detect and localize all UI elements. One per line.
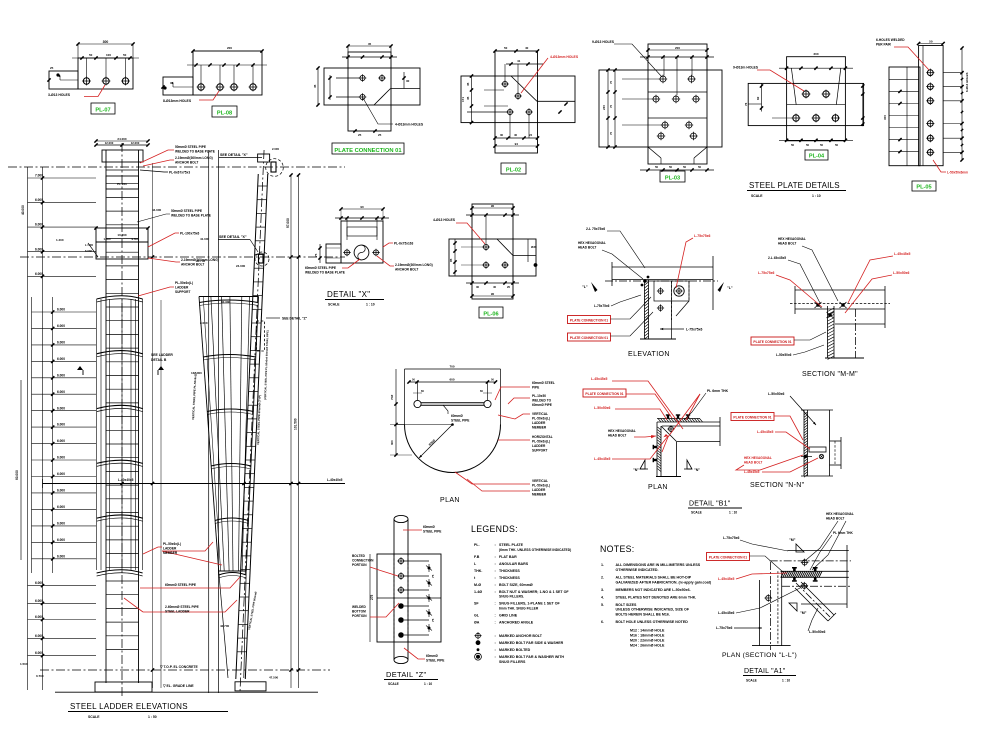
svg-text:Ø30: Ø30	[531, 245, 537, 249]
svg-text:2-19mmØ(300mm LONG): 2-19mmØ(300mm LONG)	[395, 263, 433, 267]
svg-text:DETAIL B: DETAIL B	[151, 358, 167, 362]
svg-text:6.000: 6.000	[35, 198, 43, 202]
svg-text:PL 6mm THK: PL 6mm THK	[707, 389, 729, 393]
svg-text:HEX HEXAGONAL: HEX HEXAGONAL	[826, 512, 854, 516]
svg-text:"M": "M"	[789, 538, 796, 542]
black leader pipe	[443, 405, 448, 414]
svg-text:ANCHOR BOLT: ANCHOR BOLT	[175, 161, 198, 165]
svg-text:PL-50x6x(L): PL-50x6x(L)	[532, 484, 550, 488]
label PL-06	[479, 307, 503, 318]
svg-text:6.000: 6.000	[57, 456, 65, 460]
svg-text:WELDED TO: WELDED TO	[532, 399, 552, 403]
elevation detail	[568, 227, 733, 358]
svg-text:PORTION: PORTION	[352, 563, 367, 567]
svg-text:60.300: 60.300	[221, 300, 231, 304]
svg-text::: :	[495, 620, 496, 624]
svg-text:6mm THK. SNUG FILLER: 6mm THK. SNUG FILLER	[499, 606, 539, 610]
svg-text:600: 600	[449, 378, 454, 382]
svg-text:50: 50	[655, 165, 659, 169]
svg-text:ANCHOR BOLT: ANCHOR BOLT	[181, 263, 204, 267]
svg-text:2.000: 2.000	[272, 147, 279, 151]
svg-text::: :	[495, 583, 496, 587]
svg-text:LADDER: LADDER	[532, 444, 546, 448]
svg-text:L-45x45x6: L-45x45x6	[718, 611, 735, 615]
svg-text:94: 94	[515, 142, 519, 146]
svg-text:HEX HEXAGONAL: HEX HEXAGONAL	[608, 429, 636, 433]
svg-text:ELEVATION: ELEVATION	[628, 351, 670, 358]
svg-text:9.500: 9.500	[132, 237, 139, 241]
svg-text:60mmØ: 60mmØ	[451, 414, 463, 418]
label PL-07	[91, 103, 115, 114]
ladder 1 cap plate	[102, 150, 143, 162]
leader pipe welded	[342, 259, 360, 268]
svg-text:DETAIL "Z": DETAIL "Z"	[386, 670, 426, 679]
hatched angles	[658, 419, 661, 423]
centerline bottom / T.O.P. concrete	[40, 669, 330, 671]
svg-text:L-40x40x5: L-40x40x5	[118, 478, 134, 482]
callout horizontal support	[498, 439, 530, 441]
svg-text:PL-50x6x(L): PL-50x6x(L)	[532, 417, 550, 421]
svg-text:24.000: 24.000	[117, 137, 127, 141]
svg-text:HORIZONTAL: HORIZONTAL	[532, 435, 553, 439]
svg-text:75: 75	[431, 574, 435, 578]
svg-text:1.: 1.	[601, 563, 604, 567]
plate PL-08	[161, 46, 267, 117]
svg-text:6.000: 6.000	[35, 651, 43, 655]
svg-text:50: 50	[504, 46, 508, 50]
plan rails	[414, 400, 421, 407]
ladder 1 safety cage	[96, 299, 98, 570]
svg-text:SUPPORT: SUPPORT	[532, 449, 547, 453]
svg-text:DETAIL "A1": DETAIL "A1"	[744, 668, 786, 675]
svg-text:8-Ø13mm HOLES: 8-Ø13mm HOLES	[163, 99, 192, 103]
callout: pipe welded (mid)	[137, 214, 170, 222]
section N-N	[731, 392, 841, 489]
svg-text:L-75x75x6: L-75x75x6	[716, 626, 733, 630]
svg-text:75: 75	[609, 80, 613, 84]
ladder 2 cage trapezoid	[199, 297, 219, 572]
svg-text:"N": "N"	[694, 468, 700, 472]
svg-text:1 : 10: 1 : 10	[366, 303, 375, 307]
svg-text:MEMBER: MEMBER	[532, 493, 547, 497]
label PL-04	[805, 150, 828, 160]
svg-text:40: 40	[493, 285, 497, 289]
svg-text:6.000: 6.000	[57, 505, 65, 509]
svg-text:"M": "M"	[800, 611, 807, 615]
plate PL-06	[433, 204, 537, 318]
svg-text:PORTION: PORTION	[352, 614, 367, 618]
svg-text:SECTION "N-N": SECTION "N-N"	[750, 482, 805, 489]
svg-text:M12 : 14mmØ HOLE: M12 : 14mmØ HOLE	[630, 629, 665, 633]
svg-text:5.: 5.	[601, 603, 604, 607]
svg-text:2-60mmØ STEEL PIPE: 2-60mmØ STEEL PIPE	[165, 605, 199, 609]
svg-text:GRID LINE: GRID LINE	[499, 613, 518, 617]
svg-text:L-40x40x5: L-40x40x5	[327, 478, 343, 482]
callout vertical member	[498, 414, 530, 419]
svg-text::: :	[495, 613, 496, 617]
svg-text:PL-06: PL-06	[483, 311, 498, 317]
svg-text:PLATE CONNECTION 01: PLATE CONNECTION 01	[334, 148, 402, 154]
svg-text:45: 45	[466, 96, 470, 100]
svg-text:THICKNESS: THICKNESS	[499, 569, 520, 573]
black leader 4-hole	[363, 98, 393, 124]
svg-text:BOLTED: BOLTED	[352, 554, 366, 558]
svg-text:6.000: 6.000	[57, 373, 65, 377]
legend symbols	[476, 633, 481, 638]
svg-text:SEE DETAIL "X": SEE DETAIL "X"	[219, 235, 247, 239]
svg-text:1 : 10: 1 : 10	[812, 194, 821, 198]
svg-text:200: 200	[227, 46, 232, 50]
svg-text:30: 30	[500, 133, 504, 137]
svg-text:25: 25	[50, 66, 54, 70]
svg-text:STEEL PIPE: STEEL PIPE	[423, 530, 441, 534]
svg-text:6.000: 6.000	[57, 390, 65, 394]
svg-text:SUPPORT: SUPPORT	[175, 290, 190, 294]
svg-text:CONNECTION: CONNECTION	[352, 559, 374, 563]
leader anchor bolt	[377, 256, 394, 266]
svg-text:HEX HEXAGONAL: HEX HEXAGONAL	[778, 237, 806, 241]
svg-text::: :	[495, 543, 496, 547]
PL-05 bolt circles	[927, 70, 933, 76]
svg-text:6.000: 6.000	[57, 341, 65, 345]
svg-text:6.000: 6.000	[35, 599, 43, 603]
svg-text:0.700: 0.700	[36, 674, 44, 678]
svg-text:MARKED BOLT FAR SIDE & WASHER: MARKED BOLT FAR SIDE & WASHER	[499, 641, 564, 645]
red box plate connection 01 b	[568, 333, 611, 341]
svg-text:HEX HEXAGONAL: HEX HEXAGONAL	[578, 241, 606, 245]
svg-text:60mmØ: 60mmØ	[426, 654, 438, 658]
label PL-08	[212, 106, 237, 117]
svg-text:6.000: 6.000	[85, 249, 92, 253]
svg-text:40.000: 40.000	[21, 205, 25, 215]
svg-text:PL 6mm THK: PL 6mm THK	[833, 531, 853, 535]
svg-text:WELDED TO BASE PLATE: WELDED TO BASE PLATE	[305, 271, 345, 275]
svg-text:STEEL LADDER ELEVATIONS: STEEL LADDER ELEVATIONS	[70, 702, 188, 711]
svg-text:WELDED TO BASE PLATE: WELDED TO BASE PLATE	[171, 214, 211, 218]
svg-text:4.: 4.	[601, 595, 604, 599]
red leader angle	[933, 160, 946, 172]
svg-text:50: 50	[669, 165, 673, 169]
svg-text:8.000: 8.000	[200, 321, 208, 325]
svg-text:75: 75	[431, 618, 435, 622]
callout: anchor bolt (top)	[143, 160, 174, 166]
svg-text:41: 41	[517, 59, 521, 63]
svg-text:132.000: 132.000	[191, 371, 202, 375]
svg-text:2-19mmØ(300mm LONG): 2-19mmØ(300mm LONG)	[175, 156, 213, 160]
left dimension lines	[27, 167, 29, 690]
svg-text:UNLESS OTHERWISE INDICATED, SI: UNLESS OTHERWISE INDICATED, SIZE OF	[616, 608, 690, 612]
ladder 2 tilted rails	[240, 150, 264, 692]
svg-text:2-L 45x45x5: 2-L 45x45x5	[768, 256, 786, 260]
svg-text:ANGULAR BARS: ANGULAR BARS	[499, 562, 529, 566]
svg-text:1 : 10: 1 : 10	[424, 682, 432, 686]
svg-text:3-Ø13 HOLES: 3-Ø13 HOLES	[48, 93, 71, 97]
svg-text:1 : 10: 1 : 10	[782, 679, 790, 683]
svg-text:PLATE CONNECTION 01: PLATE CONNECTION 01	[570, 336, 608, 340]
svg-text:L-50x50x6: L-50x50x6	[809, 630, 826, 634]
svg-text:PL-03: PL-03	[665, 175, 680, 181]
svg-text:GALVANIZED AFTER FABRICATION.: GALVANIZED AFTER FABRICATION. (re-apply …	[616, 580, 712, 584]
svg-text:50: 50	[698, 165, 702, 169]
svg-text:45: 45	[466, 82, 470, 86]
svg-text:SEE DETAIL "Z": SEE DETAIL "Z"	[282, 317, 308, 321]
centerline mid	[20, 256, 345, 258]
ladder 1 base pad	[95, 682, 152, 692]
svg-text:6.000: 6.000	[35, 272, 43, 276]
svg-text:PLAN: PLAN	[440, 497, 460, 504]
svg-text:6.000: 6.000	[57, 439, 65, 443]
svg-text:2.: 2.	[601, 575, 604, 579]
label PL-02	[501, 163, 526, 174]
svg-text:40: 40	[525, 46, 529, 50]
svg-text:12.000: 12.000	[131, 141, 140, 145]
svg-text:45: 45	[313, 84, 317, 88]
between-ladder dim verticals	[152, 163, 154, 688]
svg-text:6.000: 6.000	[57, 538, 65, 542]
label PL-03	[660, 171, 685, 182]
svg-text:SNUG FILLERS, 1-PLANE 1 SET OF: SNUG FILLERS, 1-PLANE 1 SET OF	[499, 602, 561, 606]
svg-text:L-50x50x6mm: L-50x50x6mm	[947, 171, 968, 175]
svg-text:60mmØ STEEL PIPE: 60mmØ STEEL PIPE	[305, 266, 336, 270]
svg-text:50: 50	[929, 39, 933, 43]
plan corner detail	[583, 377, 729, 491]
svg-text:40: 40	[514, 133, 518, 137]
svg-text::: :	[495, 641, 496, 645]
svg-text::: :	[495, 634, 496, 638]
svg-text:M24 : 26mmØ HOLE: M24 : 26mmØ HOLE	[630, 643, 665, 647]
plate PL-05	[876, 38, 969, 191]
svg-text:50: 50	[89, 53, 93, 57]
svg-text:PL-02: PL-02	[506, 167, 521, 173]
svg-text:50: 50	[820, 143, 824, 147]
plate connection 01 detail	[313, 42, 424, 154]
svg-text:PL-100x75x6: PL-100x75x6	[180, 232, 200, 236]
svg-text:SCALE: SCALE	[388, 682, 399, 686]
svg-text:24: 24	[529, 133, 533, 137]
red box N-N	[731, 413, 774, 421]
ladder 1 mid plate	[96, 228, 148, 242]
svg-text:9-Ø13 HOLES: 9-Ø13 HOLES	[592, 40, 615, 44]
svg-text:HEAD BOLT: HEAD BOLT	[608, 434, 626, 438]
tapered sides PL-04	[791, 68, 796, 105]
svg-text:50mmØ STEEL PIPE: 50mmØ STEEL PIPE	[171, 209, 202, 213]
svg-text:STEEL PLATE: STEEL PLATE	[499, 543, 524, 547]
svg-text:6.000: 6.000	[35, 223, 43, 227]
svg-text:24.000: 24.000	[236, 264, 246, 268]
section M-M	[751, 237, 911, 378]
svg-text:ALL STEEL MATERIALS SHALL BE H: ALL STEEL MATERIALS SHALL BE HOT-DIP	[616, 575, 692, 579]
callout: 60 pipe	[140, 587, 164, 589]
svg-text:6.000: 6.000	[35, 634, 43, 638]
svg-text:171: 171	[461, 97, 465, 102]
svg-text:L-75x75x6: L-75x75x6	[758, 271, 775, 275]
svg-text:VERTICAL: VERTICAL	[532, 412, 548, 416]
svg-text:L-50x50x6: L-50x50x6	[893, 271, 910, 275]
svg-text:BOLT SIZES: BOLT SIZES	[616, 603, 638, 607]
svg-text:BOLT NUT & WASHER; 1-NO & 1 SE: BOLT NUT & WASHER; 1-NO & 1 SET OF	[499, 590, 569, 594]
svg-text:M16 : 18mmØ HOLE: M16 : 18mmØ HOLE	[630, 634, 665, 638]
ladder 2 below cage lines	[219, 571, 228, 678]
svg-text:1 : 50: 1 : 50	[148, 715, 157, 719]
ground line	[55, 691, 318, 693]
svg-text:1.500: 1.500	[20, 662, 28, 666]
svg-text:6.000: 6.000	[35, 581, 43, 585]
svg-text:44.000: 44.000	[152, 208, 162, 212]
svg-text:6-Ø13 HOLES: 6-Ø13 HOLES	[965, 72, 969, 92]
svg-text:50: 50	[835, 143, 839, 147]
red leader PL-07 holes	[84, 85, 105, 97]
arrow L-75 bottom	[660, 328, 684, 330]
svg-text:M20 : 22mmØ HOLE: M20 : 22mmØ HOLE	[630, 638, 665, 642]
plate PL-07	[47, 40, 139, 114]
red box plate connection 01 a	[568, 316, 611, 324]
svg-text:1 : 10: 1 : 10	[729, 511, 737, 515]
svg-text:L-75x75x6: L-75x75x6	[723, 536, 740, 540]
svg-text:6.000: 6.000	[35, 247, 43, 251]
svg-text:PLATE CONNECTION 01: PLATE CONNECTION 01	[709, 556, 747, 560]
svg-text:7.000: 7.000	[35, 174, 43, 178]
plate PL-03	[592, 40, 722, 182]
svg-text:275: 275	[370, 594, 374, 600]
svg-text:THK.: THK.	[474, 569, 482, 573]
svg-text:41.000: 41.000	[200, 237, 210, 241]
svg-text:50: 50	[791, 143, 795, 147]
svg-text:SCALE: SCALE	[751, 194, 763, 198]
svg-text:25: 25	[358, 133, 362, 137]
svg-text:MEMBER: MEMBER	[532, 426, 547, 430]
svg-text:30: 30	[406, 79, 410, 83]
svg-text:MARKED BOLTED: MARKED BOLTED	[499, 648, 531, 652]
svg-text:L-45x45x5: L-45x45x5	[718, 577, 735, 581]
svg-text:6-HOLES WELDED: 6-HOLES WELDED	[876, 38, 905, 42]
svg-text:FLAT BAR: FLAT BAR	[499, 555, 517, 559]
svg-text:HEAD BOLT: HEAD BOLT	[778, 242, 796, 246]
callout pipe right	[495, 387, 530, 400]
plan cage view	[390, 365, 555, 505]
svg-text:3.: 3.	[601, 588, 604, 592]
svg-text:PL-10x50: PL-10x50	[532, 394, 546, 398]
svg-text:SCALE: SCALE	[746, 679, 757, 683]
svg-text:4-Ø13mm HOLES: 4-Ø13mm HOLES	[550, 55, 579, 59]
steel ladder elevations	[8, 137, 345, 719]
PL-05 rung lines	[889, 78, 919, 80]
svg-text:SF: SF	[474, 602, 479, 606]
svg-text:M-Ø: M-Ø	[474, 583, 481, 587]
svg-text:PL-50x6x(L): PL-50x6x(L)	[163, 542, 181, 546]
svg-text:WELDED TO BASE PLATE: WELDED TO BASE PLATE	[175, 150, 215, 154]
svg-text:1-4Ø: 1-4Ø	[474, 590, 482, 594]
svg-text:L-50x50x6: L-50x50x6	[776, 353, 792, 357]
svg-text::: :	[495, 562, 496, 566]
hex bolt symbols	[643, 279, 647, 283]
svg-text:LEGENDS:: LEGENDS:	[471, 524, 518, 534]
svg-text:MEMBER: MEMBER	[163, 551, 178, 555]
svg-text:HEAD BOLT: HEAD BOLT	[826, 517, 844, 521]
svg-text:L-45x45x5: L-45x45x5	[594, 457, 611, 461]
svg-text:45: 45	[368, 42, 372, 46]
svg-text:ANCHORED ANGLE: ANCHORED ANGLE	[499, 620, 534, 624]
svg-text:SNUG FILLERS: SNUG FILLERS	[499, 660, 526, 664]
callout: ladder member (lower)	[143, 547, 162, 554]
svg-text:PER PAIR: PER PAIR	[876, 43, 892, 47]
svg-text:STEEL PIPE: STEEL PIPE	[426, 659, 444, 663]
svg-text::: :	[495, 648, 496, 652]
svg-text:200: 200	[675, 46, 680, 50]
plate PL-04	[733, 52, 864, 160]
bolts L-L	[802, 560, 807, 565]
red box L-L	[707, 553, 750, 561]
svg-text:"L": "L"	[582, 285, 588, 289]
svg-text:HEAD BOLT: HEAD BOLT	[744, 461, 762, 465]
svg-text:OTHERWISE INDICATED.: OTHERWISE INDICATED.	[616, 568, 659, 572]
svg-text:SEE DETAIL "X": SEE DETAIL "X"	[220, 153, 248, 157]
svg-text:PL-6x67x75x3: PL-6x67x75x3	[169, 171, 190, 175]
svg-text:6.000: 6.000	[57, 554, 65, 558]
svg-text:300: 300	[883, 115, 887, 120]
svg-text:6.000: 6.000	[57, 308, 65, 312]
svg-text:(6mm THK. UNLESS OTHERWISE IND: (6mm THK. UNLESS OTHERWISE INDICATED)	[499, 548, 571, 552]
svg-text:DETAIL "X": DETAIL "X"	[327, 290, 370, 299]
svg-text:HEX HEXAGONAL: HEX HEXAGONAL	[744, 456, 772, 460]
leader pipe top	[403, 529, 422, 531]
svg-text:75: 75	[314, 253, 318, 257]
svg-text:ØA: ØA	[474, 620, 480, 624]
anchor bolts detail X	[344, 250, 349, 255]
svg-text:76: 76	[744, 102, 748, 106]
svg-text::: :	[495, 602, 496, 606]
ladder 2 base pad	[235, 682, 266, 691]
svg-text:ANCHOR BOLT: ANCHOR BOLT	[395, 268, 418, 272]
svg-text:6.000: 6.000	[57, 522, 65, 526]
ladder 2 right dimension lines	[290, 175, 292, 688]
centerline top	[8, 166, 345, 168]
red leaders crossing	[612, 381, 683, 429]
svg-text:25: 25	[378, 133, 382, 137]
svg-text::: :	[495, 590, 496, 594]
svg-text:300: 300	[103, 40, 109, 44]
svg-text:75: 75	[609, 104, 613, 108]
svg-text:MARKED ANCHOR BOLT: MARKED ANCHOR BOLT	[499, 634, 543, 638]
svg-text:300: 300	[390, 440, 394, 445]
legends	[471, 524, 571, 664]
callout: ladder support cage top	[138, 287, 174, 296]
svg-text::: :	[495, 569, 496, 573]
svg-text:BOLT SIZE, 60mmØ: BOLT SIZE, 60mmØ	[499, 583, 533, 587]
label plate connection 01	[332, 143, 404, 154]
svg-text:PL-50x6x(L): PL-50x6x(L)	[532, 440, 550, 444]
svg-text:BOLTS HEREIN SHALL BE M16.: BOLTS HEREIN SHALL BE M16.	[616, 613, 670, 617]
svg-text:6.: 6.	[601, 620, 604, 624]
svg-text:L-45x45x5: L-45x45x5	[744, 470, 760, 474]
svg-text:6.000: 6.000	[57, 472, 65, 476]
svg-text:10.000: 10.000	[117, 233, 127, 237]
corner bolt	[669, 427, 674, 432]
callout: pipe welded to base plate (top)	[140, 150, 174, 163]
svg-text:BOLT HOLE UNLESS OTHERWISE NOT: BOLT HOLE UNLESS OTHERWISE NOTED	[616, 620, 689, 624]
svg-text:75: 75	[609, 131, 613, 135]
svg-text:F.B: F.B	[474, 555, 480, 559]
horizontal strut L-40x40x5	[43, 483, 346, 485]
svg-text:6.000: 6.000	[57, 423, 65, 427]
red leader PL-08 holes	[199, 91, 219, 100]
svg-text:PL-05: PL-05	[916, 184, 931, 190]
svg-text:STEEL PLATES NOT DENOTED ARE 6: STEEL PLATES NOT DENOTED ARE 6mm THK.	[616, 595, 697, 599]
svg-text:2-L 75x75x6: 2-L 75x75x6	[586, 227, 605, 231]
svg-text:30: 30	[476, 285, 480, 289]
svg-text:20: 20	[507, 285, 511, 289]
svg-text:101.500: 101.500	[294, 418, 298, 430]
ladder 1 centerline	[121, 143, 123, 697]
